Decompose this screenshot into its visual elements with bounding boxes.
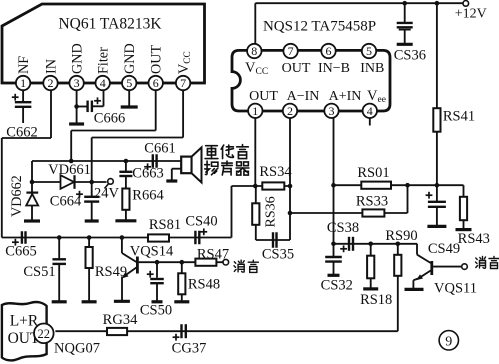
resistor R664 <box>122 189 129 210</box>
op-amp U-NQ61 TA8213K IC body <box>2 4 205 83</box>
pin 6 of NQS12 <box>321 44 335 58</box>
label R664 <box>132 188 164 204</box>
ground CS51 <box>52 300 67 303</box>
pin 22 of NQG07 <box>34 324 54 344</box>
wire CS35 bottom edge <box>256 239 290 241</box>
svg-text:CS49: CS49 <box>428 241 460 257</box>
ground RS48 <box>174 300 189 303</box>
node RS41 tap <box>435 1 440 6</box>
svg-text:CG37: CG37 <box>172 341 207 357</box>
capacitor CS50 <box>147 271 164 283</box>
ground R664 <box>115 219 136 222</box>
svg-text:RS33: RS33 <box>356 194 388 210</box>
pin 4 of NQ61 <box>96 76 110 90</box>
wire pin4 stub <box>369 118 371 126</box>
wire speaker return <box>172 169 181 181</box>
svg-text:+12V: +12V <box>455 7 487 22</box>
node VD662 top <box>30 180 35 185</box>
svg-text:5: 5 <box>366 44 372 58</box>
wire VQS11 base <box>433 266 462 268</box>
capacitor CS35 <box>273 232 277 248</box>
wire RS34 line <box>232 185 291 187</box>
wire left rail <box>1 138 3 238</box>
svg-text:7: 7 <box>180 76 186 90</box>
svg-text:RS01: RS01 <box>357 165 389 181</box>
wire pin1 down <box>254 118 256 186</box>
wire pin7 left <box>92 137 183 139</box>
node CS51 tap <box>57 235 62 240</box>
svg-text:6: 6 <box>326 44 332 58</box>
svg-text:CS40: CS40 <box>185 214 217 230</box>
node mute terminal 2 <box>462 264 468 270</box>
ground VD662 <box>24 219 40 222</box>
wire pin2 down <box>50 90 52 138</box>
pin 7 of NQ61 <box>176 76 190 90</box>
node RS01-RS33 <box>405 183 410 188</box>
resistor RS47 <box>195 259 216 266</box>
label VD661 <box>48 162 91 178</box>
label VD662 <box>9 175 25 217</box>
node pin4-RS18 <box>368 242 373 247</box>
pin 8 of NQS12 <box>247 44 261 58</box>
svg-text:OUT: OUT <box>282 61 311 76</box>
svg-text:NF: NF <box>16 56 32 74</box>
capacitor CS51 <box>52 259 65 264</box>
label NQS12 TA75458P <box>263 19 376 35</box>
resistor RS33 <box>362 209 384 216</box>
ground pin3 <box>69 122 84 125</box>
diode VD662 <box>26 182 38 221</box>
node 24V test point <box>105 179 114 189</box>
pin 2 of NQS12 <box>283 104 297 118</box>
text 音 (mute2) <box>489 257 499 269</box>
svg-text:RS81: RS81 <box>149 217 181 233</box>
capacitor CS36 <box>397 23 413 30</box>
wire pin line of NQ61 <box>2 82 205 84</box>
wire RS48 bottom <box>181 294 183 302</box>
svg-text:C665: C665 <box>5 244 36 260</box>
svg-text:OUT: OUT <box>149 45 165 74</box>
svg-text:C666: C666 <box>94 111 125 127</box>
wire CS50 bottom <box>156 283 158 302</box>
wire bottom line <box>55 330 397 332</box>
wire pin2 down <box>289 118 291 240</box>
label +12V <box>455 7 487 22</box>
svg-text:VD661: VD661 <box>48 162 91 178</box>
wire C664 stub <box>91 182 93 197</box>
pin 5 of NQS12 <box>362 44 376 58</box>
transistor VQS14 <box>122 238 138 302</box>
label RS33 <box>356 194 388 210</box>
label CS38 <box>327 220 359 236</box>
wire main rail <box>2 237 232 239</box>
wire C662 bottom stub <box>22 107 24 123</box>
wire RS33 line <box>290 212 408 214</box>
svg-text:6: 6 <box>153 76 159 90</box>
node CS36 tap <box>402 1 407 6</box>
svg-text:IN: IN <box>44 59 60 74</box>
text 消 (mute2) <box>476 257 486 269</box>
svg-text:CS51: CS51 <box>23 264 55 280</box>
wire RS33 up link <box>407 185 409 213</box>
ground RS18 <box>363 287 378 290</box>
speaker (subwoofer) <box>181 147 201 182</box>
node pin2-RS33 <box>288 211 293 216</box>
ground CS49 cap <box>427 225 446 228</box>
pin 6 of NQ61 <box>149 76 163 90</box>
text 音 (mute1) <box>248 260 258 272</box>
svg-text:3: 3 <box>74 76 80 90</box>
wire speaker line <box>32 160 182 162</box>
wire diode line <box>32 181 107 183</box>
pin 3 of NQ61 <box>69 76 83 90</box>
wire rail up to RS34 <box>231 186 233 238</box>
node RS41 bottom node <box>435 183 440 188</box>
pin 1 of NQS12 <box>248 104 262 118</box>
svg-text:4: 4 <box>367 104 373 118</box>
svg-text:NQ61 TA8213K: NQ61 TA8213K <box>58 16 162 33</box>
svg-text:CS50: CS50 <box>140 303 172 319</box>
ground speaker <box>166 179 177 182</box>
label VQS14 <box>130 244 174 260</box>
label RS81 <box>149 217 181 233</box>
pin 3 of NQS12 <box>324 104 338 118</box>
label RS48 <box>188 277 220 293</box>
resistor RS90 <box>394 244 401 276</box>
wire RS47 to mute <box>216 261 223 263</box>
ground RS49 <box>82 300 97 303</box>
capacitor C664 <box>76 191 99 202</box>
svg-text:A−IN: A−IN <box>287 89 320 104</box>
wire pin6 down <box>155 90 157 130</box>
pin label IN <box>44 59 60 74</box>
pin label Vcc pin8 <box>245 60 268 77</box>
resistor RS81 <box>148 234 169 241</box>
label C662 <box>6 125 37 141</box>
pin 4 of NQS12 <box>363 104 377 118</box>
wire CS36 bottom <box>404 30 406 45</box>
node figure number 9 <box>439 331 458 350</box>
label CS36 <box>394 48 426 64</box>
node pin2-RS34 <box>288 184 293 189</box>
pin label A-IN pin2 <box>287 89 320 104</box>
svg-text:IN−B: IN−B <box>318 61 350 76</box>
node pin1-RS34 <box>253 184 258 189</box>
wire CS36 stub <box>404 3 406 23</box>
node VQS14 collector tap <box>120 235 125 240</box>
wire C666 to pin4 <box>92 90 104 106</box>
label RS90 <box>385 228 417 244</box>
label C661 <box>144 141 175 157</box>
svg-text:RS43: RS43 <box>458 231 490 247</box>
capacitor C661 <box>144 154 156 170</box>
ground pin5 <box>121 105 138 108</box>
pin 1 of NQ61 <box>16 76 30 90</box>
svg-text:OUT: OUT <box>249 89 278 104</box>
wire RS01 line <box>334 184 464 186</box>
wire C664 bottom <box>91 202 93 221</box>
svg-text:CS38: CS38 <box>327 220 359 236</box>
label RS01 <box>357 165 389 181</box>
wire RS41 top <box>436 3 438 108</box>
wire pin6 drop <box>70 131 72 162</box>
label VQS11 <box>434 281 477 297</box>
label CG37 <box>172 341 207 357</box>
wire pin7 down <box>182 90 184 137</box>
svg-text:RS18: RS18 <box>360 292 392 308</box>
svg-text:L+R: L+R <box>10 313 39 330</box>
ground CS32 <box>328 274 340 277</box>
svg-text:Fiter: Fiter <box>96 47 112 74</box>
label CS35 <box>262 247 294 263</box>
pin 5 of NQ61 <box>122 76 136 90</box>
wire CS50 stub <box>156 262 158 278</box>
text 重 (speaker label) <box>205 146 218 159</box>
diode VD661 <box>61 175 75 189</box>
svg-text:CS35: CS35 <box>262 247 294 263</box>
label RS18 <box>360 292 392 308</box>
pin 2 of NQ61 <box>43 76 57 90</box>
ground C664 <box>85 219 99 222</box>
node pin3-C666 <box>74 104 87 109</box>
node C663 tap <box>124 159 129 164</box>
capacitor C663 <box>119 172 132 176</box>
pin label Vcc pin7 <box>176 51 193 74</box>
capacitor CS32 <box>325 244 342 262</box>
node A on speaker line <box>69 159 74 164</box>
label RS49 <box>95 264 127 280</box>
node RS48 tap <box>180 260 185 265</box>
transistor VQS11 <box>413 244 431 290</box>
wire pin5 stub <box>128 90 130 107</box>
svg-text:VD662: VD662 <box>9 175 25 217</box>
node RS49 tap <box>87 235 92 240</box>
svg-text:3: 3 <box>329 104 335 118</box>
capacitor C665 <box>12 231 26 245</box>
label RG34 <box>103 312 138 328</box>
capacitor CS40 <box>195 228 207 244</box>
svg-text:7: 7 <box>288 44 294 58</box>
text 声 (speaker label) <box>222 161 233 175</box>
text 扬 (speaker label) <box>205 161 218 175</box>
node mute terminal 1 <box>223 259 229 265</box>
svg-text:1: 1 <box>252 104 258 118</box>
resistor RS18 <box>367 244 374 289</box>
wire bottom to RS90 <box>397 276 399 331</box>
svg-text:A+IN: A+IN <box>329 89 362 104</box>
svg-text:RS48: RS48 <box>188 277 220 293</box>
wire RS49 bottom <box>88 268 90 302</box>
svg-text:24V: 24V <box>94 186 120 202</box>
pin label OUT <box>149 45 165 74</box>
svg-text:RS36: RS36 <box>264 196 279 227</box>
wire RS41 bottom <box>436 132 438 186</box>
svg-text:CS36: CS36 <box>394 48 426 64</box>
wire R664 bottom <box>125 210 127 221</box>
capacitor CS38 <box>340 237 353 252</box>
resistor RS43 <box>460 185 467 229</box>
capacitor CS49 (reservoir) <box>426 185 446 207</box>
wire pin6 left <box>71 130 156 132</box>
resistor RS01 <box>361 182 391 189</box>
label CS50 <box>140 303 172 319</box>
pin label IN-B pin6 <box>318 61 350 76</box>
svg-text:2: 2 <box>48 76 54 90</box>
svg-text:9: 9 <box>445 334 452 349</box>
svg-text:CS32: CS32 <box>321 278 353 294</box>
pin label OUT pin1 <box>249 89 278 104</box>
capacitor C666 <box>88 97 101 112</box>
op-amp U-NQS12 TA75458P IC body <box>232 50 390 111</box>
svg-text:RS34: RS34 <box>259 164 292 180</box>
label RS41 <box>443 109 475 125</box>
text 音 (speaker label) <box>237 145 249 159</box>
svg-text:C661: C661 <box>144 141 175 157</box>
capacitor C662 <box>12 94 32 107</box>
wire CS32 bottom <box>333 262 335 276</box>
wire corner line1-line2 <box>31 161 33 182</box>
svg-text:C664: C664 <box>50 194 82 210</box>
svg-text:VQS14: VQS14 <box>130 244 174 260</box>
ground RS43 <box>456 228 472 231</box>
pin label GND pin5 <box>122 43 138 74</box>
svg-text:1: 1 <box>20 76 26 90</box>
ground CS50 <box>152 300 163 303</box>
pin label Fiter <box>96 47 112 74</box>
label C666 <box>94 111 125 127</box>
svg-text:22: 22 <box>38 327 51 341</box>
svg-text:4: 4 <box>100 76 106 90</box>
pin label INB pin5 <box>360 61 384 76</box>
resistor RS41 <box>433 108 440 132</box>
node Vcc-C664 <box>89 180 94 185</box>
pin 7 of NQS12 <box>283 44 297 58</box>
node +12V terminal <box>463 1 469 7</box>
svg-text:R664: R664 <box>132 188 164 204</box>
node pin3-CS38-CS32 <box>331 242 336 247</box>
ground VQS11 emitter <box>405 288 424 291</box>
wire CS51 bottom <box>58 264 60 302</box>
label RS36 <box>264 196 279 227</box>
text 低 (speaker label) <box>221 145 233 158</box>
svg-text:5: 5 <box>126 76 132 90</box>
label C663 <box>132 166 163 182</box>
svg-text:NQG07: NQG07 <box>54 341 100 357</box>
svg-text:8: 8 <box>251 44 257 58</box>
label RS43 <box>458 231 490 247</box>
resistor RS49 <box>86 247 93 268</box>
svg-text:GND: GND <box>70 43 86 74</box>
svg-text:RS90: RS90 <box>385 228 417 244</box>
port NQG07 L+R OUT body <box>2 302 47 360</box>
text 消 (mute1) <box>234 260 244 272</box>
wire RS49 stub <box>88 238 90 248</box>
node RS90 tap <box>396 242 401 247</box>
node pin3-RS01 <box>331 183 336 188</box>
wire C663-R664 <box>125 176 127 189</box>
text 器 (speaker label) <box>236 162 249 175</box>
resistor RS48 <box>178 273 185 294</box>
pin label NF <box>16 56 32 74</box>
wire CS51 stub <box>58 238 60 260</box>
svg-text:VQS11: VQS11 <box>434 281 477 297</box>
label C664 <box>50 194 82 210</box>
wire CS38 line <box>334 243 418 245</box>
capacitor CG37 <box>173 324 186 340</box>
resistor RG34 <box>107 328 127 335</box>
wire pin1 stub <box>22 90 24 102</box>
label CS32 <box>321 278 353 294</box>
wire pin2 elbow left <box>2 137 51 139</box>
wire RS48 stub <box>181 262 183 273</box>
wire +12V rail <box>255 2 463 4</box>
wire pin8 riser <box>254 3 256 44</box>
svg-text:GND: GND <box>122 43 138 74</box>
label RS34 <box>259 164 292 180</box>
wire pin3 down <box>76 90 78 124</box>
label C665 <box>5 244 36 260</box>
pin label OUT pin7 <box>282 61 311 76</box>
label RS47 <box>197 247 229 263</box>
label 24V <box>94 186 120 202</box>
pin label Vee pin4 <box>367 88 386 105</box>
resistor RS36 <box>252 186 259 240</box>
node CS50 tap <box>155 260 160 265</box>
label CS51 <box>23 264 55 280</box>
ground CS36 <box>397 43 413 46</box>
label NQG07 <box>54 341 100 357</box>
svg-text:INB: INB <box>360 61 384 76</box>
wire CS49 bottom <box>436 207 438 227</box>
resistor RS34 <box>262 182 284 189</box>
pin label A+IN pin3 <box>329 89 362 104</box>
svg-text:RG34: RG34 <box>103 312 138 328</box>
svg-text:RS41: RS41 <box>443 109 475 125</box>
label CS49 <box>428 241 460 257</box>
wire VQS14 base line <box>139 261 196 263</box>
ground VQS14 emitter <box>114 300 130 303</box>
label CS40 <box>185 214 217 230</box>
wire pin7 drop <box>91 138 93 183</box>
pin label GND pin3 <box>70 43 86 74</box>
wire pin3 down <box>333 118 335 244</box>
svg-text:2: 2 <box>287 104 293 118</box>
wire C663 stub <box>125 161 127 172</box>
svg-text:NQS12 TA75458P: NQS12 TA75458P <box>263 19 376 35</box>
